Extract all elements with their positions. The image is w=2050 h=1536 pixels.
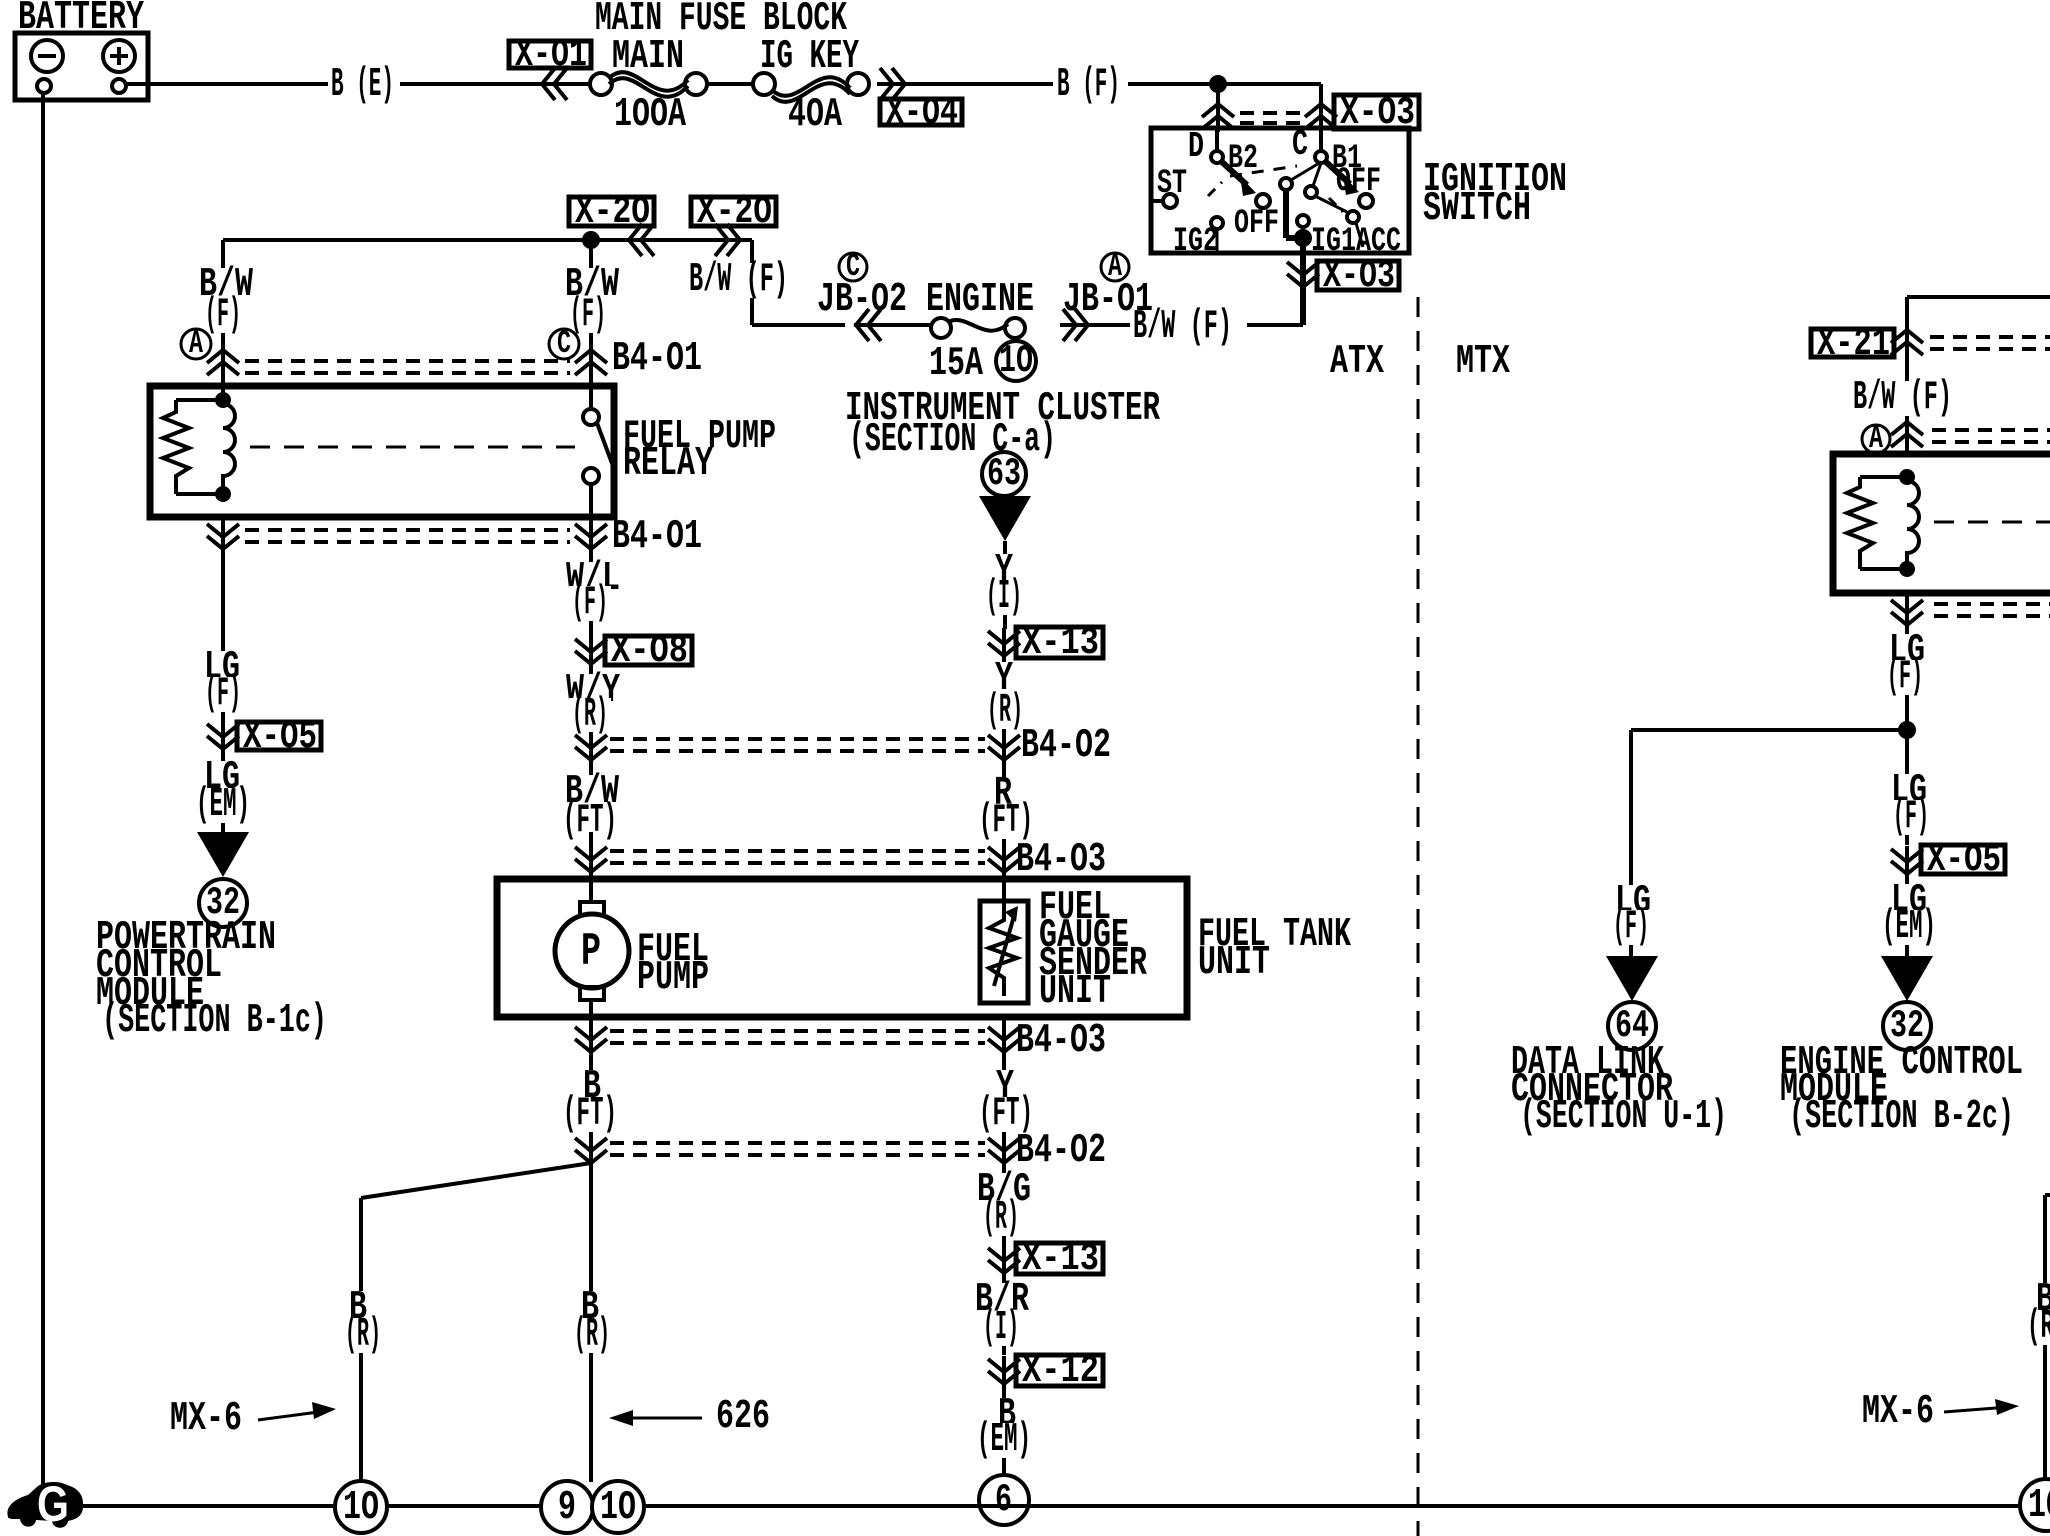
svg-text:C: C [846,248,860,285]
ignition contact D/B2 [1215,128,1219,151]
wire B/W(F) down center branch [589,240,593,345]
circuit number 10 engine fuse [996,341,1036,381]
ground circle 9 [541,1481,593,1533]
svg-text:1O: 1O [600,1485,636,1531]
circuit number 32 powertrain [199,879,247,927]
svg-text:B (E): B (E) [331,62,394,108]
relay actuation dash [250,446,575,449]
svg-text:X-2O: X-2O [697,190,772,234]
svg-text:UNIT: UNIT [1198,940,1270,986]
ignition contact C/B1 [1319,128,1323,151]
svg-text:(F): (F) [572,580,608,626]
svg-text:(SECTION B-1c): (SECTION B-1c) [102,998,327,1044]
svg-text:(SECTION C-a): (SECTION C-a) [849,417,1056,463]
svg-text:(R: (R [2027,1304,2050,1350]
svg-text:(F): (F) [1613,904,1649,950]
fuel tank unit box [497,879,1187,1017]
ignition switch box [1151,128,1409,253]
svg-text:(EM): (EM) [1882,904,1936,950]
svg-text:X-13: X-13 [1022,1237,1099,1281]
relay coil [221,386,225,400]
svg-text:(F): (F) [570,292,606,338]
svg-text:(SECTION B-2c): (SECTION B-2c) [1789,1094,2014,1140]
svg-text:D: D [1188,126,1204,167]
svg-text:MAIN: MAIN [612,34,684,80]
svg-text:UNIT: UNIT [1039,969,1111,1015]
connector X-05 left [221,721,225,751]
connector X-03 bottom [1301,259,1305,289]
svg-text:ENGINE: ENGINE [926,277,1034,323]
wire Y(FT) [1002,1052,1006,1137]
fuse MAIN 100A [567,82,590,86]
connector B4-03 bottom dashes [610,1029,985,1033]
svg-text:(EM): (EM) [196,782,250,828]
svg-text:(SECTION U-1): (SECTION U-1) [1520,1094,1727,1140]
connector chevron below MTX relay [1905,593,1909,625]
ignition IG1 wire with junction [1283,190,1289,238]
svg-text:BATTERY: BATTERY [18,0,144,41]
svg-text:(EM): (EM) [977,1417,1031,1463]
connector X-03 top [1216,84,1220,128]
svg-text:(F): (F) [1893,794,1929,840]
svg-text:X-21: X-21 [1817,322,1890,366]
svg-text:(FT): (FT) [563,1091,617,1137]
connector B4-03 bottom left chevron [589,1017,593,1052]
svg-text:X-O3: X-O3 [1323,254,1395,298]
fuse ENGINE 15A [931,318,951,338]
connector X-08 [589,636,593,666]
svg-text:ATX: ATX [1330,339,1384,385]
svg-text:SWITCH: SWITCH [1423,186,1531,232]
wire B(R) MX-6 branch diagonal [361,1163,591,1198]
connector chevron A MTX [1905,420,1909,450]
MTX relay actuation dash [1934,521,2050,524]
wire B/W(F) ignition to engine fuse [1247,323,1303,327]
circle A marker MTX [1862,425,1890,453]
circle C marker relay [549,329,579,359]
svg-text:B/W (F): B/W (F) [1853,375,1952,421]
ground circle 10 MX-6 [335,1481,387,1533]
svg-text:(F): (F) [205,671,241,717]
circle C marker top [839,253,867,281]
ignition dashes movement [1230,166,1297,176]
svg-text:(R): (R) [574,1312,610,1358]
wire branch to data link connector [1631,728,1907,732]
connector B4-01 bottom chevrons [221,517,225,549]
connector X-20 right [691,197,776,226]
connector X-04 [877,82,907,86]
junction node B(F) [1209,75,1227,93]
svg-text:1O: 1O [999,339,1033,383]
svg-text:X-O5: X-O5 [1927,838,2001,882]
wire R(FT) [1002,760,1006,847]
connector B4-01 bottom dashes [245,528,570,532]
svg-text:63: 63 [987,452,1021,496]
connector B4-01 top dashes [245,359,570,363]
ground rail wire [43,1504,2050,1508]
svg-text:4OA: 4OA [788,92,842,138]
circuit number 64 data link [1608,1002,1656,1050]
battery [15,33,148,100]
label B/W(F) MTX [1850,381,1955,416]
svg-text:6: 6 [995,1478,1012,1522]
junction node LG(F) [1898,721,1916,739]
wire B/R(I) [1002,1273,1006,1355]
svg-text:OFF: OFF [1234,205,1279,243]
connector B4-02 chevron left [589,732,593,762]
svg-text:A: A [1108,248,1123,285]
svg-text:(I): (I) [983,1305,1019,1351]
wire B/W(F) down left branch [221,240,225,345]
connector B4-01 top left chevron [221,345,225,386]
connector B4-03 chevron left [589,844,593,874]
wire LG(F) down to X-05 [1905,730,1909,845]
svg-text:15A: 15A [929,341,983,387]
wire B(R) MX-6 right [2045,1193,2050,1197]
svg-text:RELAY: RELAY [623,441,713,487]
svg-text:1O: 1O [2028,1483,2050,1529]
svg-text:B/W (F): B/W (F) [689,257,788,303]
svg-text:PUMP: PUMP [637,955,709,1001]
circuit number 32 ECM [1883,1002,1931,1050]
connector B4-02 bottom right chevron [1002,1135,1006,1165]
junction JB-02 [854,323,884,327]
svg-text:G: G [37,1476,69,1532]
connector X-20 left [569,197,654,226]
wire B/W(F) horizontal [223,238,752,242]
wire B/W(FT) [562,775,622,810]
junction JB-01 [1060,323,1090,327]
svg-text:(R): (R) [983,1195,1019,1241]
wire LG(EM) [221,749,225,835]
arrow from instrument cluster [979,496,1031,541]
connector B4-02 bottom left chevron [589,1135,593,1165]
svg-text:(F): (F) [205,292,241,338]
svg-text:(I): (I) [986,574,1022,620]
fuel pump relay box [150,386,614,517]
fuse IG KEY 40A [707,82,753,86]
svg-text:B4-O1: B4-O1 [612,514,702,560]
svg-text:IG2: IG2 [1173,223,1218,261]
svg-text:B4-O1: B4-O1 [612,336,702,382]
svg-text:C: C [557,325,571,362]
wire LG(F) MTX [1905,625,1909,730]
svg-text:X-O4: X-O4 [886,91,958,135]
connector B4-01 top center chevron [589,345,593,386]
svg-text:MX-6: MX-6 [170,1396,242,1442]
ignition switch arm B1-OFF [1326,162,1350,184]
MTX relay resistor [1860,475,1907,479]
connector B4-02 bottom dashes [610,1141,985,1145]
svg-text:MTX: MTX [1456,339,1510,385]
circuit number 63 instrument cluster [982,452,1026,496]
svg-text:X-O8: X-O8 [611,629,688,673]
connector X-12 [1002,1356,1006,1386]
wire B(E) battery to main fuse block [126,82,330,86]
arrow to data link connector [1606,956,1658,1001]
wire B/W(F) MTX top [1907,295,2050,299]
svg-text:1OOA: 1OOA [614,92,686,138]
svg-text:B4-O2: B4-O2 [1021,723,1111,769]
ground symbol G [7,1482,83,1528]
connector B4-03 dashes [610,849,985,853]
connector X-01 [509,41,591,68]
arrow to powertrain module [221,835,225,860]
relay resistor [176,398,223,402]
wire LG(EM) to ECM [1905,874,1909,959]
connector B4-02 chevron right [1002,732,1006,762]
ground circle 10 right [2020,1479,2050,1531]
connector B4-03 chevron right [1002,844,1006,874]
svg-text:OFF: OFF [1336,163,1381,201]
svg-text:X-13: X-13 [1022,621,1099,665]
svg-text:MX-6: MX-6 [1862,1389,1934,1435]
wire B/G(R) [1002,1163,1006,1247]
wire LG(F) to powertrain module [221,549,225,723]
svg-text:IG KEY: IG KEY [760,34,859,80]
svg-text:9: 9 [558,1485,576,1531]
wire B(FT) [589,1052,593,1137]
svg-text:626: 626 [716,1394,770,1440]
svg-text:B4-O3: B4-O3 [1016,1018,1106,1064]
label B/W(F) at X-20 [686,263,791,298]
circle A marker top [1101,253,1129,281]
junction node X-20 [582,231,600,249]
connector X-05 right [1905,846,1909,876]
circuit number 6 ground [979,1475,1029,1525]
svg-text:ST: ST [1157,165,1187,203]
wire Y(I) [1003,541,1007,629]
connector X-13 lower [1002,1245,1006,1275]
fuel pump motor P [589,879,593,902]
wire battery negative to ground rail [41,93,45,1506]
svg-text:(F): (F) [1887,654,1923,700]
svg-text:P: P [581,926,601,978]
ignition mid contacts ACC/IG1 [1291,162,1321,180]
wire Y(R) [1002,656,1006,733]
ground circle 10 626 [592,1481,644,1533]
fuel gauge sender unit resistor [980,901,1028,1003]
svg-text:A: A [189,325,204,362]
svg-text:(R): (R) [572,692,608,738]
wire LG(F) data link [1629,890,1633,959]
ignition switch arm B2-OFF [1222,162,1247,185]
connector B4-03 bottom right chevron [1002,1017,1006,1052]
circle A marker relay [181,329,211,359]
arrow to engine control module [1881,956,1933,1001]
svg-text:B (F): B (F) [1057,62,1120,108]
wire W/Y(R) [589,664,593,733]
wire engine fuse to X-20 [881,323,930,327]
wire B(F) to ignition switch [907,82,1053,86]
svg-text:1O: 1O [343,1485,379,1531]
relay switch [589,386,593,409]
ignition contact IG2 [1211,217,1223,229]
connector B4-02 dashes [610,737,985,741]
MTX relay coil [1899,469,1915,485]
connector X-21 [1811,329,1894,357]
wire B(EM) to ground 6 [1002,1384,1006,1475]
connector X-13 upper [1002,628,1006,658]
svg-text:(R): (R) [345,1312,381,1358]
wire B(R) 626 branch [589,1163,593,1482]
svg-text:JB-O2: JB-O2 [817,277,907,323]
svg-text:X-O5: X-O5 [243,715,317,759]
wire W/L(F) relay to X-08 [589,549,593,636]
svg-text:C: C [1292,124,1308,165]
svg-text:X-12: X-12 [1022,1349,1099,1393]
ATX MTX divider [1417,297,1420,1536]
svg-text:(R): (R) [987,688,1023,734]
MTX relay box [1833,454,2050,593]
